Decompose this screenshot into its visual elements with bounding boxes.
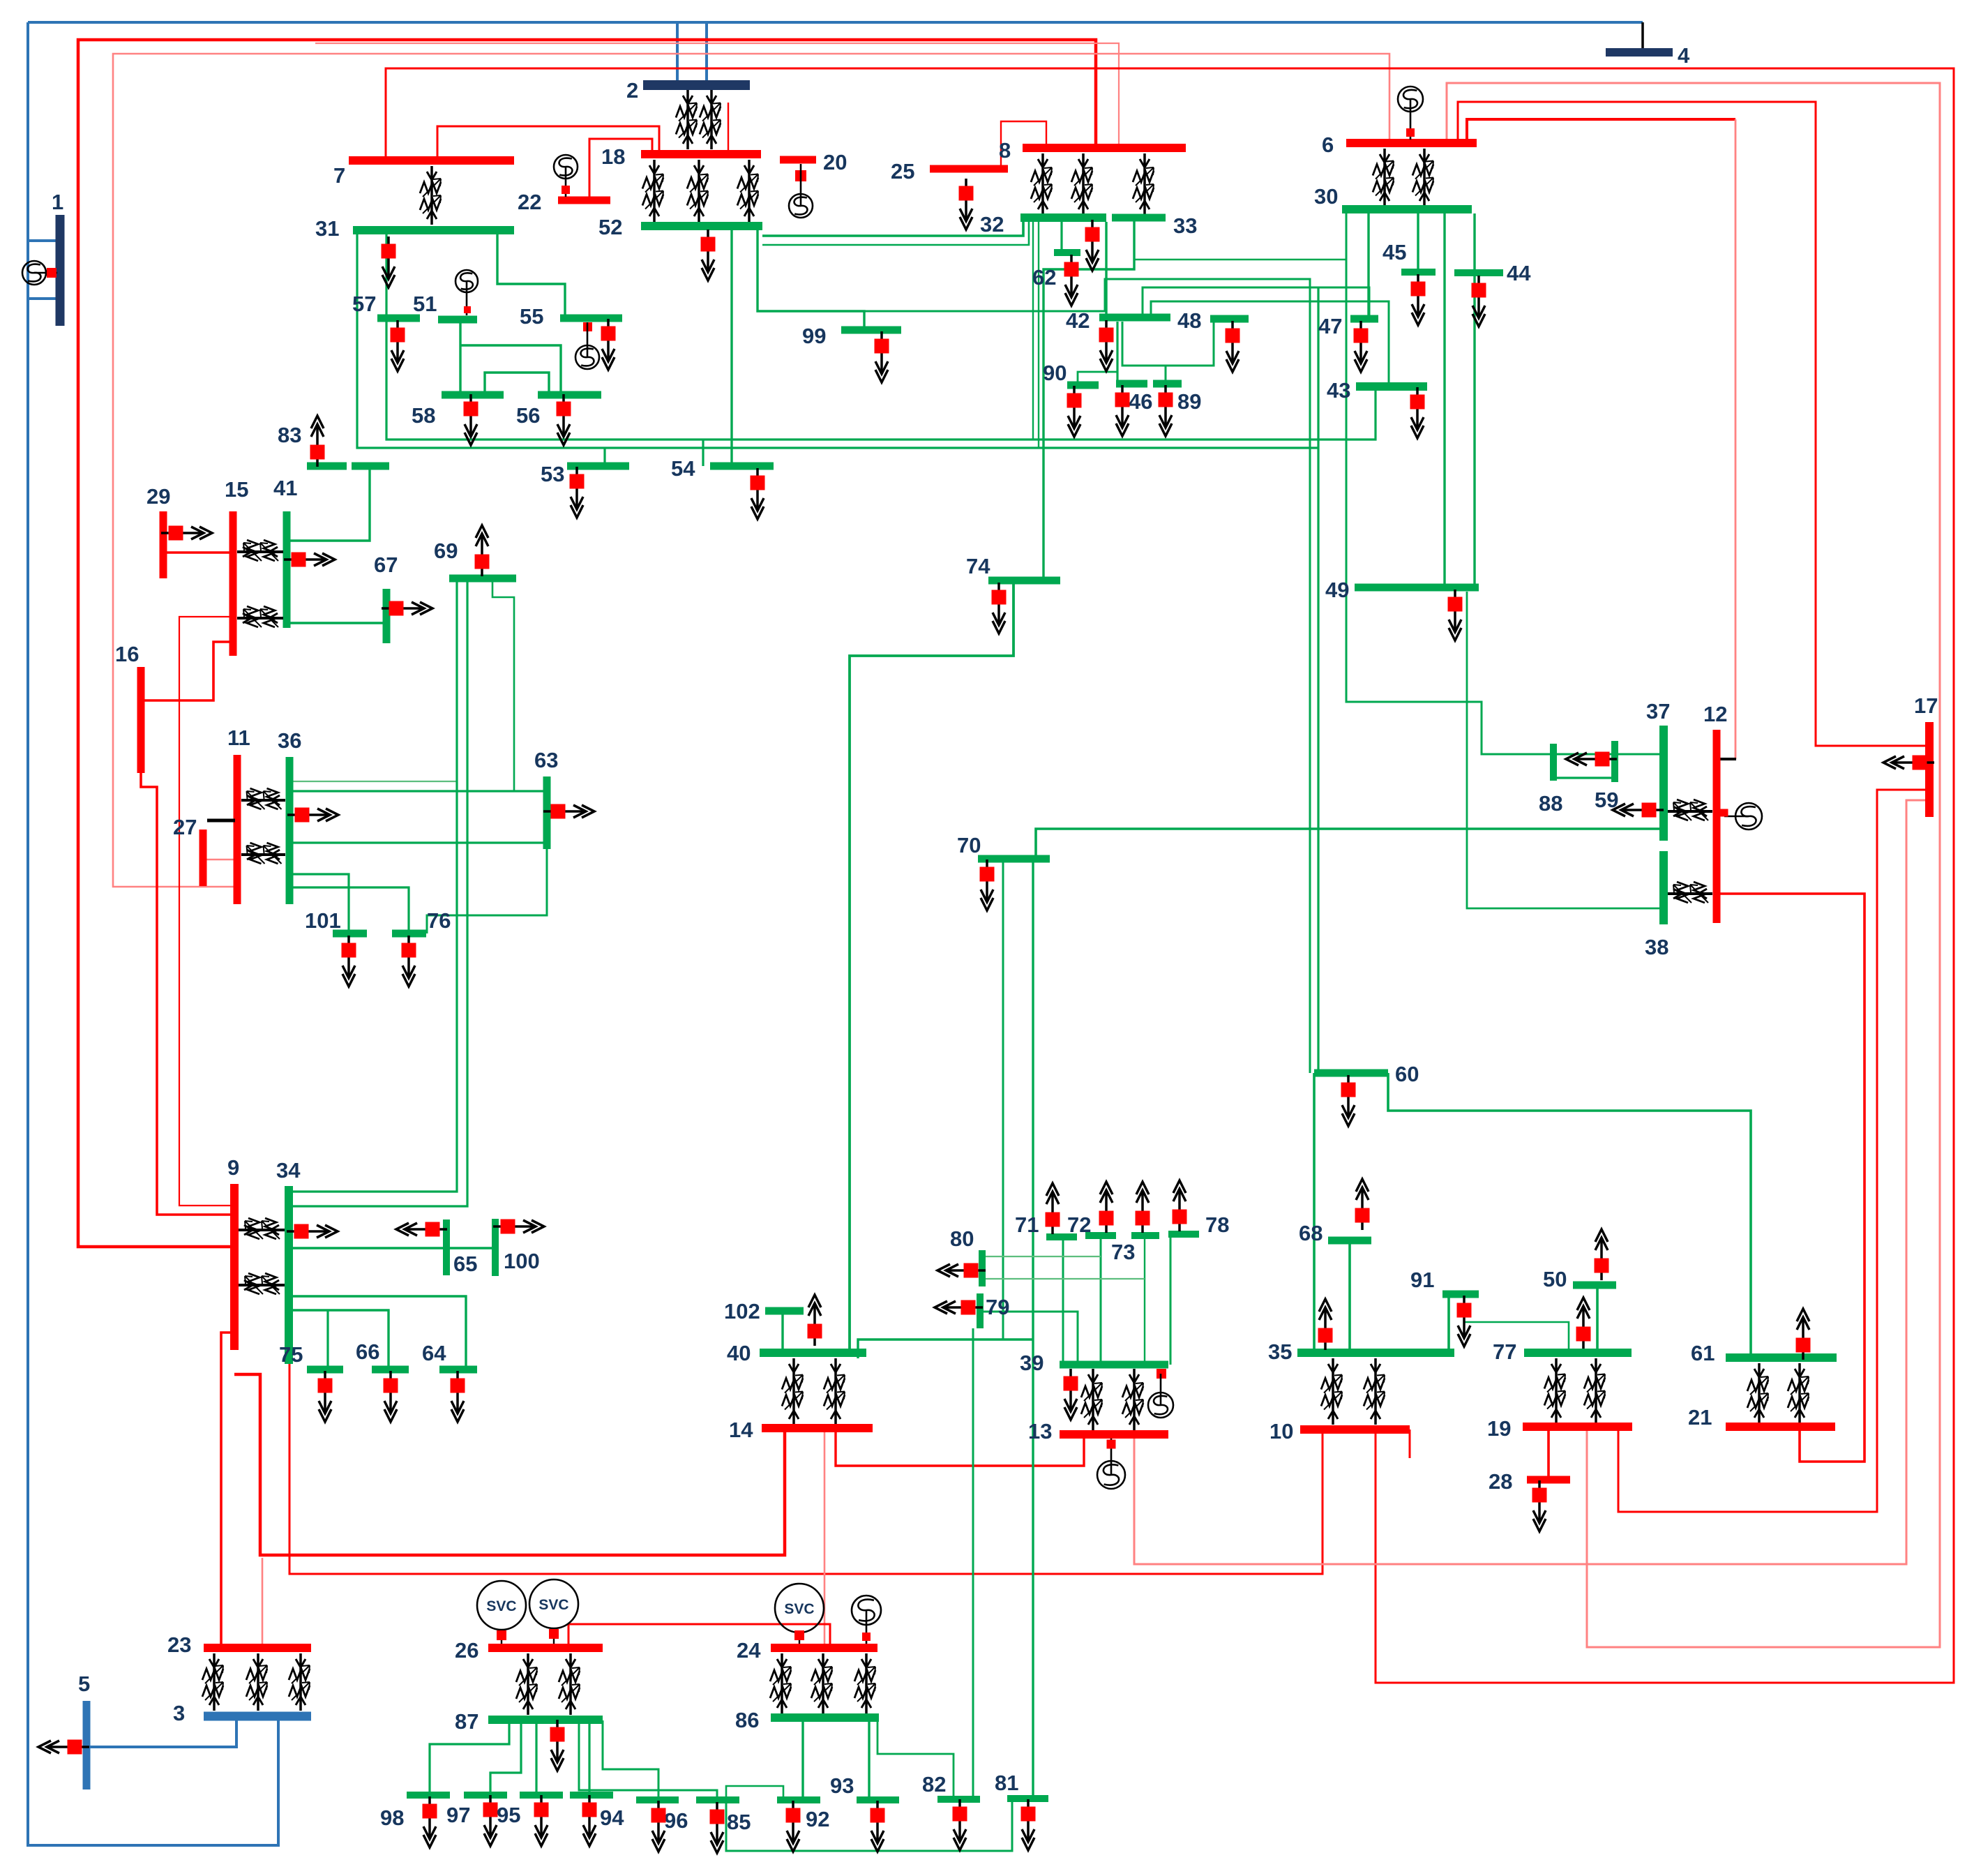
- wire 42-43: [1151, 301, 1389, 387]
- wire blue top 1-4: [28, 21, 1643, 24]
- bus 88: [1550, 744, 1557, 781]
- wire 30-47: [1367, 213, 1369, 319]
- svg-text:3: 3: [173, 1701, 185, 1725]
- svg-text:100: 100: [504, 1249, 540, 1273]
- bus 87: [488, 1716, 603, 1724]
- load at 48: [1226, 321, 1240, 372]
- bus 35: [1297, 1349, 1454, 1357]
- bus 49: [1355, 584, 1479, 592]
- svg-text:32: 32: [980, 212, 1004, 237]
- bus 64: [439, 1366, 477, 1374]
- svg-text:75: 75: [279, 1342, 303, 1367]
- label 11: [227, 726, 250, 750]
- load at 97: [483, 1795, 498, 1846]
- load at 52: [701, 230, 716, 280]
- svg-text:5: 5: [78, 1672, 90, 1696]
- load at 28: [1532, 1480, 1547, 1531]
- svg-text:72: 72: [1067, 1213, 1091, 1237]
- generator at 55: [575, 322, 599, 369]
- label 15: [225, 477, 248, 502]
- bus 90: [1067, 382, 1099, 389]
- generator at 12: [1721, 803, 1763, 830]
- transformer 6-30 b: [1412, 149, 1433, 207]
- svg-text:29: 29: [146, 484, 170, 509]
- wire 36-101: [293, 874, 349, 933]
- wire 48tap-89: [1165, 366, 1167, 384]
- load at 65: [396, 1222, 447, 1237]
- label 100: [504, 1249, 540, 1273]
- wire LG1 tap54: [702, 440, 704, 466]
- wire 34-66 manifold: [289, 1310, 389, 1370]
- label 6: [1322, 133, 1334, 157]
- wire 6-17: [1458, 102, 1929, 746]
- label 14: [729, 1418, 753, 1442]
- svg-text:82: 82: [922, 1772, 946, 1796]
- svg-text:4: 4: [1678, 43, 1690, 68]
- label 92: [806, 1807, 829, 1831]
- wire 30-37: [1346, 209, 1664, 754]
- bus 28: [1527, 1476, 1570, 1484]
- wire 52-54: [730, 226, 732, 466]
- label 57: [352, 292, 376, 316]
- label 102: [724, 1299, 760, 1323]
- wire blue riser 2b: [705, 22, 708, 85]
- wire 70-81: [1032, 859, 1034, 1799]
- svg-text:43: 43: [1327, 378, 1350, 403]
- load at 63: [543, 804, 594, 819]
- wire 36-76: [293, 887, 409, 933]
- load at 91: [1457, 1296, 1472, 1346]
- wire 26-24: [568, 1624, 830, 1648]
- svg-text:56: 56: [516, 403, 540, 428]
- svg-text:70: 70: [957, 833, 981, 857]
- transformer 35-10 a: [1321, 1358, 1342, 1425]
- svg-text:99: 99: [802, 324, 826, 348]
- bus 95: [520, 1792, 563, 1799]
- wire 39 riser 72: [1100, 1236, 1102, 1365]
- label 4: [1678, 43, 1690, 68]
- gen square at 39: [1156, 1369, 1166, 1379]
- wire 30-49: [1443, 213, 1445, 587]
- wire 87-95: [535, 1720, 537, 1795]
- svg-text:8: 8: [999, 138, 1011, 163]
- label 60: [1395, 1062, 1419, 1086]
- load at 61: [1796, 1309, 1811, 1360]
- svg-text:36: 36: [278, 728, 301, 753]
- load at 80: [937, 1263, 986, 1278]
- label 9: [227, 1155, 239, 1180]
- label 36: [278, 728, 301, 753]
- wire 6-12 lower pink: [1735, 119, 1737, 759]
- load at 40: [808, 1295, 822, 1346]
- wire 39 riser 73: [1144, 1236, 1145, 1365]
- label 27: [173, 815, 197, 839]
- svg-text:49: 49: [1325, 578, 1349, 602]
- svg-text:87: 87: [455, 1709, 479, 1734]
- wire blue bus3 to bus5: [86, 1716, 236, 1747]
- svg-text:88: 88: [1539, 791, 1562, 816]
- bus 33: [1112, 214, 1166, 222]
- label 31: [315, 216, 339, 241]
- svg-text:96: 96: [664, 1808, 688, 1833]
- bus 102: [765, 1307, 804, 1315]
- bus 79: [977, 1293, 984, 1328]
- wire 79-82: [972, 1328, 974, 1799]
- svg-text:50: 50: [1543, 1267, 1567, 1291]
- bus 58: [442, 391, 504, 399]
- bus 83: [307, 463, 347, 470]
- label 61: [1691, 1341, 1715, 1365]
- wire 60-61: [1388, 1073, 1751, 1358]
- bus 20: [780, 156, 816, 164]
- gen square at 55: [583, 322, 592, 331]
- wire 42-47: [1143, 287, 1369, 319]
- bus 11: [234, 755, 241, 904]
- label 77: [1493, 1340, 1516, 1364]
- bus 71: [1046, 1233, 1077, 1240]
- bus 96: [636, 1796, 679, 1803]
- label 62: [1032, 265, 1056, 290]
- wire 32-LG1: [1032, 222, 1034, 440]
- label 80: [950, 1226, 974, 1251]
- label 52: [598, 215, 622, 239]
- bus 83 second bar: [352, 463, 389, 470]
- svg-text:45: 45: [1382, 240, 1406, 264]
- svg-text:10: 10: [1269, 1419, 1293, 1443]
- svg-text:16: 16: [115, 642, 139, 666]
- SVC at 26 b: [529, 1579, 578, 1644]
- label 1: [52, 190, 63, 214]
- label 78: [1205, 1213, 1229, 1237]
- bus 74: [988, 577, 1060, 585]
- label 29: [146, 484, 170, 509]
- label 66: [356, 1340, 379, 1364]
- transformer 11-36 a: [241, 788, 285, 809]
- load at 57: [391, 320, 405, 371]
- svg-text:85: 85: [727, 1810, 751, 1834]
- svg-text:27: 27: [173, 815, 197, 839]
- wire 31-55: [497, 230, 565, 318]
- wire 33-30 tie: [1134, 259, 1346, 261]
- svg-text:2: 2: [626, 78, 638, 103]
- transformer 18-52 c: [737, 160, 758, 222]
- bus 50: [1573, 1282, 1616, 1289]
- bus 55: [560, 315, 622, 322]
- generator at 22: [554, 155, 578, 197]
- wire 69 right: [492, 578, 514, 791]
- label 23: [167, 1633, 191, 1657]
- wire 29-15: [163, 551, 233, 554]
- load at 71: [1046, 1183, 1060, 1234]
- generator at 51: [455, 270, 478, 315]
- svg-text:86: 86: [735, 1708, 759, 1732]
- bus 82: [937, 1796, 980, 1803]
- bus 24: [771, 1644, 877, 1652]
- wire 39 riser 78: [1170, 1234, 1172, 1365]
- wire 42-46: [1116, 322, 1118, 384]
- load at 45: [1411, 274, 1426, 325]
- load at 75: [318, 1371, 333, 1422]
- wire 34-10: [289, 1360, 1323, 1574]
- load at 29: [161, 526, 212, 541]
- svg-text:28: 28: [1489, 1469, 1512, 1494]
- label 71: [1015, 1213, 1039, 1237]
- wire 68-35: [1348, 1240, 1351, 1353]
- transformer 37-12 a: [1668, 800, 1712, 820]
- bus 67: [383, 589, 391, 643]
- svg-text:38: 38: [1645, 935, 1668, 959]
- bus 53: [567, 463, 629, 470]
- svg-text:74: 74: [966, 554, 990, 578]
- label 20: [823, 150, 847, 174]
- bus 46: [1116, 380, 1147, 388]
- bus 15: [229, 511, 237, 656]
- wire 52-32 tie: [762, 220, 1023, 236]
- bus 54: [710, 463, 774, 470]
- svg-text:54: 54: [671, 456, 695, 481]
- svg-text:69: 69: [434, 539, 458, 563]
- svg-text:97: 97: [446, 1803, 470, 1827]
- label 34: [276, 1158, 301, 1183]
- label 51: [413, 292, 437, 316]
- load at 54: [751, 468, 765, 519]
- label 41: [273, 476, 297, 500]
- label 76: [427, 908, 451, 933]
- label 19: [1487, 1416, 1511, 1441]
- wire 9-23 pink: [262, 1558, 264, 1648]
- load at 35: [1318, 1299, 1333, 1350]
- load at 68: [1355, 1179, 1370, 1230]
- label 12: [1703, 702, 1727, 726]
- SVC at 24: [775, 1584, 824, 1644]
- generator at 6: [1398, 87, 1423, 140]
- bus 61: [1726, 1353, 1837, 1362]
- bus 93: [857, 1796, 899, 1803]
- wire 6-12 upper: [1467, 119, 1735, 143]
- transformer 35-10 b: [1364, 1358, 1385, 1425]
- label 98: [380, 1806, 404, 1830]
- svg-text:31: 31: [315, 216, 339, 241]
- load at 25: [959, 179, 974, 230]
- wire 36-69 thin: [293, 781, 457, 782]
- transformer 8-32 b: [1071, 153, 1092, 215]
- load at 50: [1595, 1229, 1609, 1280]
- bus 47: [1350, 315, 1378, 323]
- svg-text:14: 14: [729, 1418, 753, 1442]
- label 22: [518, 190, 541, 214]
- svg-text:SVC: SVC: [538, 1597, 568, 1613]
- transformer 40-14 b: [824, 1358, 845, 1425]
- label 96: [664, 1808, 688, 1833]
- bus 65: [443, 1220, 450, 1275]
- load at 99: [875, 331, 889, 382]
- bus 70: [978, 855, 1050, 863]
- bus 23: [204, 1644, 311, 1652]
- wire 15-9 thin: [179, 617, 234, 1206]
- bus 31: [353, 226, 514, 234]
- wire pink top 62: [315, 43, 1119, 148]
- bus 4: [1606, 48, 1673, 57]
- bus 1: [56, 215, 65, 326]
- wire 6-19 loop: [1447, 83, 1940, 1647]
- svg-text:23: 23: [167, 1633, 191, 1657]
- svg-text:89: 89: [1177, 389, 1201, 414]
- label 50: [1543, 1267, 1567, 1291]
- transformer 8-32 a: [1031, 153, 1052, 215]
- load at 82: [953, 1799, 967, 1850]
- label 33: [1173, 213, 1197, 238]
- load 59 on 37: [1613, 803, 1664, 818]
- wire 83bar-41: [289, 466, 370, 541]
- label 32: [980, 212, 1004, 237]
- bus 37: [1659, 726, 1668, 841]
- wire 22-18: [589, 139, 652, 200]
- label 21: [1688, 1405, 1712, 1429]
- load at 34: [287, 1224, 338, 1239]
- transformer 23-3 c: [289, 1653, 310, 1711]
- wire 91-35: [1447, 1294, 1450, 1356]
- label 17: [1914, 693, 1938, 718]
- bus 77: [1524, 1349, 1632, 1357]
- load at 89: [1159, 385, 1173, 436]
- svg-text:102: 102: [724, 1299, 760, 1323]
- load at 78: [1173, 1180, 1187, 1231]
- bus 51: [438, 316, 477, 324]
- load at 83: [310, 416, 325, 467]
- label 10: [1269, 1419, 1293, 1443]
- svg-text:39: 39: [1020, 1351, 1043, 1375]
- svg-text:52: 52: [598, 215, 622, 239]
- label 42: [1066, 308, 1090, 333]
- transformer 77-19 b: [1584, 1358, 1605, 1423]
- wire 34-100: [289, 1247, 495, 1249]
- label 72: [1067, 1213, 1091, 1237]
- svg-text:79: 79: [986, 1295, 1009, 1319]
- svg-text:24: 24: [737, 1638, 761, 1663]
- wire 80-39 a: [985, 1256, 1101, 1257]
- svg-text:62: 62: [1032, 265, 1056, 290]
- label 7: [333, 163, 345, 188]
- bus 9: [230, 1184, 239, 1350]
- bus 73: [1131, 1232, 1159, 1239]
- wire 11-6 pink: [113, 54, 1389, 887]
- wire tick to bus 4: [1641, 22, 1644, 52]
- label 91: [1410, 1268, 1434, 1292]
- bus 13: [1060, 1430, 1168, 1439]
- svg-text:12: 12: [1703, 702, 1727, 726]
- bus 76: [392, 930, 426, 938]
- transformer 24-86 a: [770, 1653, 791, 1713]
- label 47: [1318, 314, 1342, 338]
- generator at 13: [1097, 1439, 1125, 1489]
- transformer 24-86 b: [811, 1653, 832, 1713]
- svg-text:73: 73: [1111, 1240, 1135, 1264]
- bus 29: [160, 511, 167, 578]
- label 56: [516, 403, 540, 428]
- label 55: [520, 304, 543, 329]
- label 89: [1177, 389, 1201, 414]
- bus 22: [558, 197, 610, 204]
- load at 93: [871, 1801, 885, 1852]
- label 40: [727, 1341, 751, 1365]
- label 13: [1028, 1419, 1052, 1443]
- wire 52-32 tie2: [762, 220, 1029, 245]
- label 43: [1327, 378, 1350, 403]
- load at 55: [601, 319, 616, 370]
- load at 58: [464, 394, 479, 445]
- bus 98: [407, 1792, 450, 1799]
- load at 44: [1472, 276, 1486, 327]
- wire 90 hook: [1078, 372, 1117, 385]
- bus 72: [1085, 1232, 1116, 1239]
- svg-text:34: 34: [276, 1158, 301, 1183]
- wire 88-59 tie: [1553, 776, 1615, 779]
- wire 87-85: [579, 1720, 717, 1800]
- label 67: [374, 553, 398, 577]
- label 95: [497, 1803, 520, 1827]
- load at 46: [1115, 385, 1130, 436]
- svg-text:19: 19: [1487, 1416, 1511, 1441]
- svg-text:51: 51: [413, 292, 437, 316]
- svg-text:9: 9: [227, 1155, 239, 1180]
- svg-text:SVC: SVC: [486, 1598, 516, 1614]
- bus 14: [762, 1424, 873, 1432]
- wire blue border left-bottom: [28, 22, 278, 1845]
- svg-text:37: 37: [1646, 699, 1670, 723]
- label 58: [412, 403, 435, 428]
- svg-text:66: 66: [356, 1340, 379, 1364]
- label 97: [446, 1803, 470, 1827]
- transformer 18-52 a: [642, 160, 663, 222]
- load at 36: [287, 808, 338, 823]
- svg-text:33: 33: [1173, 213, 1197, 238]
- wire 70-37 long: [1036, 829, 1664, 859]
- svg-text:65: 65: [453, 1252, 477, 1276]
- svg-text:30: 30: [1314, 184, 1338, 209]
- svg-text:68: 68: [1299, 1221, 1323, 1245]
- wire 62-32: [1060, 220, 1062, 253]
- wire 69-34 a: [289, 578, 457, 1192]
- bus 25: [930, 165, 1008, 173]
- transformer 40-14 a: [782, 1358, 803, 1425]
- transformer 38-12 b: [1668, 882, 1712, 903]
- svg-text:81: 81: [995, 1771, 1018, 1795]
- tick at 27: [207, 819, 235, 823]
- transformer 7-31: [420, 166, 441, 225]
- wire 87-94: [588, 1720, 590, 1795]
- bus 59: [1611, 741, 1618, 782]
- svg-text:76: 76: [427, 908, 451, 933]
- bus 68: [1328, 1237, 1371, 1245]
- load at 85: [710, 1802, 725, 1853]
- svg-text:63: 63: [534, 748, 558, 772]
- load at 53: [570, 467, 585, 518]
- bus 63: [543, 776, 551, 849]
- svg-text:13: 13: [1028, 1419, 1052, 1443]
- load at 47: [1354, 321, 1369, 372]
- load at 31: [382, 237, 396, 287]
- transformer 39-13 a: [1081, 1369, 1102, 1430]
- transformer 61-21 a: [1747, 1363, 1768, 1423]
- bus 100: [492, 1219, 499, 1276]
- load square at 20: [795, 170, 806, 181]
- transformer 39-13 b: [1122, 1369, 1143, 1430]
- label 53: [541, 462, 564, 486]
- label 48: [1177, 308, 1201, 333]
- load at 43: [1410, 387, 1425, 438]
- wire 19-17: [1618, 790, 1929, 1512]
- svg-text:83: 83: [278, 423, 301, 447]
